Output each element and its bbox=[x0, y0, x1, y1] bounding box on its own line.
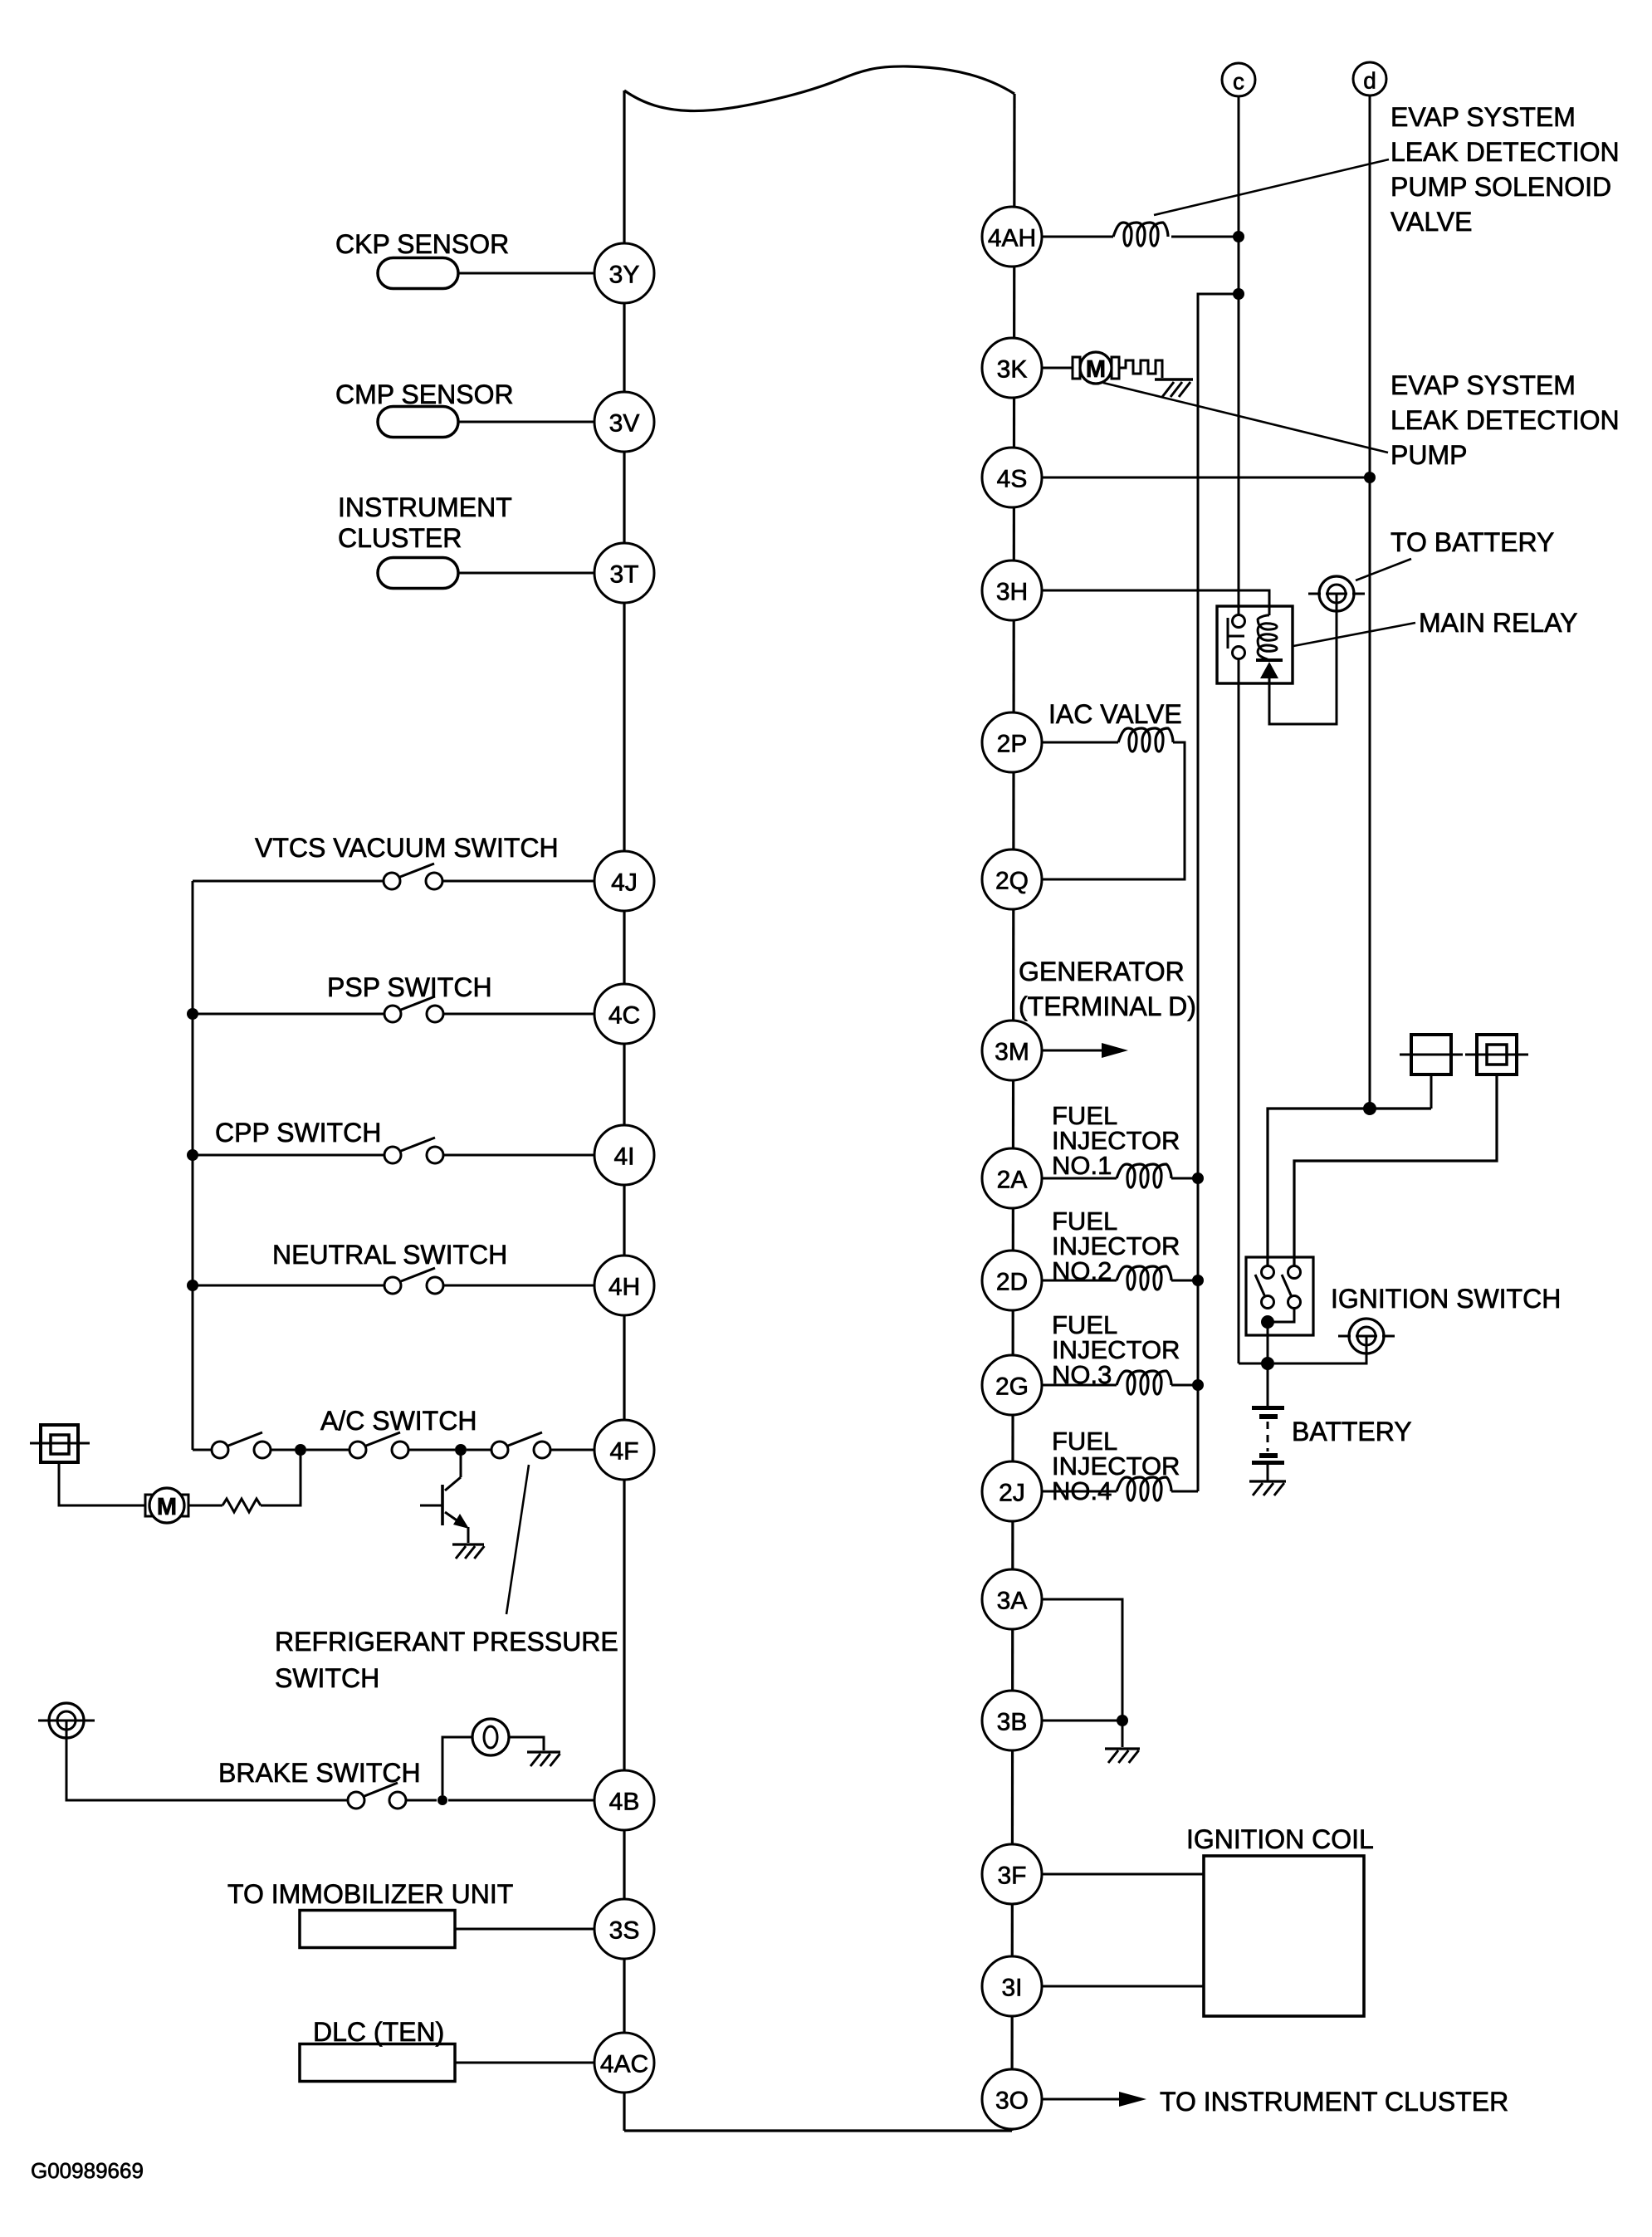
wire solenoid coil to c line bbox=[1171, 236, 1239, 238]
wire neutral switch row right bbox=[443, 1285, 594, 1287]
ignition switch contacts bbox=[1255, 1266, 1301, 1309]
inductor fuel injector no.3 coil bbox=[1117, 1371, 1171, 1394]
node 3M (ECM terminal) bbox=[982, 1021, 1042, 1080]
switch refrigerant pressure switch bbox=[491, 1432, 550, 1458]
leader line EVAP pump bbox=[1103, 383, 1388, 453]
diode D1 (in relay) bbox=[1256, 660, 1283, 678]
svg-text:NO.2: NO.2 bbox=[1052, 1256, 1112, 1285]
svg-text:2J: 2J bbox=[999, 1480, 1025, 1507]
node 4AH (ECM terminal) bbox=[982, 207, 1042, 267]
junction injector no.1 / feed bus bbox=[1192, 1172, 1204, 1184]
node 3A (ECM terminal) bbox=[982, 1569, 1042, 1629]
svg-text:4H: 4H bbox=[609, 1274, 640, 1301]
leader line refrigerant pressure switch bbox=[506, 1465, 529, 1614]
node 3F (ECM terminal) bbox=[982, 1844, 1042, 1904]
junction left branch / CPP row bbox=[187, 1149, 198, 1161]
inductor L2 main relay coil bbox=[1258, 615, 1277, 660]
node 4J (ECM terminal) bbox=[594, 851, 654, 911]
inductor fuel injector no.1 coil bbox=[1117, 1164, 1171, 1187]
svg-text:3K: 3K bbox=[997, 356, 1028, 384]
svg-text:3T: 3T bbox=[609, 561, 638, 589]
svg-text:PUMP SOLENOID: PUMP SOLENOID bbox=[1391, 172, 1611, 202]
junction injector no.2 / feed bus bbox=[1192, 1275, 1204, 1286]
switch brake switch bbox=[348, 1783, 406, 1809]
wire injector no.4 to feed bus bbox=[1171, 1491, 1198, 1493]
svg-text:4C: 4C bbox=[609, 1002, 640, 1030]
wire A/C row segment 1 bbox=[193, 1449, 212, 1451]
svg-text:LEAK DETECTION: LEAK DETECTION bbox=[1391, 405, 1620, 435]
svg-text:CPP SWITCH: CPP SWITCH bbox=[215, 1118, 381, 1148]
wire A/C row segment 3 bbox=[306, 1449, 349, 1451]
wire harness break curve (top) bbox=[624, 66, 1014, 111]
wire ground stub bbox=[1122, 1721, 1124, 1747]
node 3I (ECM terminal) bbox=[982, 1956, 1042, 2016]
wire DLC lead bbox=[455, 2062, 594, 2064]
leader line main relay bbox=[1293, 623, 1415, 646]
svg-text:M: M bbox=[1086, 356, 1106, 383]
connector (square) blower circuit bbox=[30, 1425, 90, 1462]
node 3Y (ECM terminal) bbox=[594, 243, 654, 303]
lamp (brake light) bbox=[472, 1719, 509, 1755]
connector instrument cluster bbox=[378, 558, 458, 589]
svg-text:MAIN RELAY: MAIN RELAY bbox=[1419, 608, 1577, 638]
node 2P (ECM terminal) bbox=[982, 712, 1042, 772]
wire injector no.3 to feed bus bbox=[1171, 1384, 1198, 1387]
wire A/C row segment 6 bbox=[550, 1449, 594, 1451]
svg-text:3H: 3H bbox=[996, 579, 1028, 606]
node 3O (ECM terminal) bbox=[982, 2069, 1042, 2129]
arrow 3O to instrument cluster bbox=[1042, 2092, 1146, 2107]
svg-text:REFRIGERANT PRESSURE: REFRIGERANT PRESSURE bbox=[275, 1627, 618, 1657]
wire blower connector drop bbox=[59, 1462, 145, 1505]
svg-text:IGNITION SWITCH: IGNITION SWITCH bbox=[1331, 1284, 1561, 1314]
svg-text:3Y: 3Y bbox=[609, 262, 640, 289]
wire left switch branch (vertical) bbox=[192, 881, 194, 1450]
node 3H (ECM terminal) bbox=[982, 560, 1042, 620]
connector (round) stoplight circuit bbox=[38, 1703, 95, 1738]
battery BAT1 bbox=[1252, 1406, 1284, 1481]
connector (square) fuse block A bbox=[1400, 1035, 1463, 1074]
wire c feed line (lower) bbox=[1238, 658, 1240, 1363]
wire VTCS switch row right bbox=[442, 880, 594, 883]
svg-text:EVAP SYSTEM: EVAP SYSTEM bbox=[1391, 102, 1576, 132]
node 4AC (ECM terminal) bbox=[594, 2033, 654, 2093]
svg-text:2Q: 2Q bbox=[995, 868, 1029, 895]
wire right ECM bus (vertical) bbox=[1012, 94, 1014, 2131]
wire c line to ignition switch junction bbox=[1239, 1363, 1268, 1365]
junction battery node bbox=[1261, 1357, 1274, 1370]
svg-text:GENERATOR: GENERATOR bbox=[1019, 957, 1185, 986]
block IGNITION COIL bbox=[1204, 1856, 1364, 2016]
transistor Q1 (A/C cut) bbox=[420, 1477, 469, 1543]
ground (ECM 3A/3B) bbox=[1105, 1749, 1140, 1763]
svg-text:NO.1: NO.1 bbox=[1052, 1151, 1112, 1180]
wire 3A to ground branch bbox=[1042, 1599, 1122, 1721]
ground (transistor emitter) bbox=[452, 1544, 484, 1559]
wire 3K to pump motor bbox=[1042, 367, 1076, 370]
ground (battery) bbox=[1249, 1481, 1286, 1495]
wire 3I to ignition coil bbox=[1042, 1985, 1204, 1988]
svg-text:CLUSTER: CLUSTER bbox=[338, 523, 462, 553]
node c (to other sheet) bbox=[1222, 63, 1255, 96]
switch VTCS vacuum switch bbox=[384, 864, 442, 889]
node 2G (ECM terminal) bbox=[982, 1355, 1042, 1415]
inductor fuel injector no.2 coil bbox=[1117, 1266, 1171, 1290]
wire 3B to ground branch bbox=[1042, 1720, 1122, 1722]
svg-text:NEUTRAL SWITCH: NEUTRAL SWITCH bbox=[272, 1240, 507, 1270]
wire immobilizer lead bbox=[455, 1928, 594, 1931]
svg-text:A/C SWITCH: A/C SWITCH bbox=[320, 1406, 477, 1436]
svg-text:IAC VALVE: IAC VALVE bbox=[1048, 699, 1182, 729]
svg-text:G00989669: G00989669 bbox=[31, 2158, 144, 2183]
svg-text:PUMP: PUMP bbox=[1391, 440, 1467, 470]
junction ignition switch output bbox=[1261, 1315, 1274, 1329]
junction left branch / PSP row bbox=[187, 1008, 198, 1020]
wire 2P to IAC coil bbox=[1042, 742, 1118, 744]
inductor fuel injector no.4 coil bbox=[1117, 1477, 1171, 1500]
wire c feed line (upper) bbox=[1238, 96, 1240, 615]
node 4B (ECM terminal) bbox=[594, 1770, 654, 1830]
inductor L1 EVAP leak detection pump solenoid valve bbox=[1113, 223, 1168, 246]
wire lamp branch bbox=[442, 1737, 472, 1795]
arrow 3M to generator terminal D bbox=[1042, 1043, 1128, 1058]
wire PSP switch row right bbox=[443, 1013, 594, 1016]
resistor R2 (pump, meander) bbox=[1119, 360, 1162, 378]
svg-text:2P: 2P bbox=[997, 731, 1028, 758]
connector (round) TO BATTERY bbox=[1308, 576, 1365, 611]
wire motor to resistor bbox=[188, 1505, 222, 1507]
node 4F (ECM terminal) bbox=[594, 1420, 654, 1480]
ground (brake lamp) bbox=[527, 1752, 560, 1766]
wire ignition connector to battery node bbox=[1274, 1353, 1366, 1363]
svg-text:BATTERY: BATTERY bbox=[1292, 1417, 1412, 1446]
wire CKP sensor lead bbox=[458, 272, 594, 275]
leader line to battery connector bbox=[1356, 559, 1411, 580]
motor M2 EVAP leak detection pump bbox=[1073, 352, 1119, 384]
wire brake row segment bbox=[406, 1799, 437, 1802]
svg-text:4S: 4S bbox=[997, 466, 1028, 493]
node 4S (ECM terminal) bbox=[982, 448, 1042, 507]
node 2J (ECM terminal) bbox=[982, 1461, 1042, 1521]
block TO IMMOBILIZER UNIT bbox=[300, 1911, 455, 1948]
svg-text:VTCS VACUUM SWITCH: VTCS VACUUM SWITCH bbox=[255, 833, 559, 863]
connector (round) ignition switch bbox=[1338, 1319, 1395, 1353]
wire CMP sensor lead bbox=[458, 421, 594, 423]
wire transistor collector drop bbox=[460, 1450, 462, 1477]
switch (middle, A/C request) bbox=[349, 1432, 408, 1458]
relay contact (on c line) bbox=[1228, 615, 1245, 659]
wire ignition switch internal link bbox=[1268, 1308, 1294, 1322]
svg-text:EVAP SYSTEM: EVAP SYSTEM bbox=[1391, 370, 1576, 400]
junction left branch / neutral row bbox=[187, 1280, 198, 1291]
leader line EVAP solenoid valve bbox=[1154, 159, 1389, 215]
svg-text:2A: 2A bbox=[997, 1167, 1028, 1194]
node d (to other sheet) bbox=[1353, 62, 1386, 95]
switch CPP switch bbox=[384, 1138, 443, 1163]
wire fuse B drop to ignition switch bbox=[1294, 1074, 1497, 1265]
junction A/C row / blower motor branch bbox=[295, 1444, 306, 1456]
wire 2D to injector coil bbox=[1042, 1280, 1117, 1282]
svg-text:CKP SENSOR: CKP SENSOR bbox=[335, 229, 509, 259]
svg-text:3I: 3I bbox=[1001, 1975, 1022, 2002]
wire A/C row segment 2 bbox=[271, 1449, 295, 1451]
svg-text:3V: 3V bbox=[609, 410, 640, 438]
wire ignition switch to battery node bbox=[1267, 1322, 1269, 1363]
wire instrument cluster lead bbox=[458, 572, 594, 575]
svg-text:d: d bbox=[1363, 68, 1376, 94]
wire 2G to injector coil bbox=[1042, 1384, 1117, 1387]
connector CKP sensor bbox=[378, 258, 458, 289]
wire PSP switch row left bbox=[193, 1013, 384, 1016]
junction A/C row / transistor branch bbox=[455, 1444, 467, 1456]
svg-text:4I: 4I bbox=[613, 1143, 634, 1171]
svg-text:3F: 3F bbox=[997, 1863, 1026, 1890]
svg-text:3O: 3O bbox=[995, 2088, 1029, 2115]
node 4I (ECM terminal) bbox=[594, 1125, 654, 1185]
resistor R1 blower resistor bbox=[222, 1499, 261, 1512]
switch S1 IGNITION SWITCH (box) bbox=[1246, 1257, 1313, 1335]
wire injector no.2 to feed bus bbox=[1171, 1280, 1198, 1282]
node 4H (ECM terminal) bbox=[594, 1256, 654, 1315]
svg-text:NO.3: NO.3 bbox=[1052, 1360, 1112, 1389]
wire A/C row segment 4 bbox=[408, 1449, 455, 1451]
svg-text:INSTRUMENT: INSTRUMENT bbox=[338, 492, 512, 522]
wire left ECM bus (vertical) bbox=[623, 91, 625, 2131]
inductor L3 IAC valve bbox=[1118, 728, 1173, 751]
wire d line to ignition switch pole bbox=[1268, 1109, 1431, 1265]
switch neutral switch bbox=[384, 1268, 443, 1294]
wire 3H to main relay coil bbox=[1042, 590, 1269, 615]
wire A/C row segment 5 bbox=[467, 1449, 491, 1451]
junction 3A/3B ground bbox=[1117, 1715, 1128, 1726]
node 3S (ECM terminal) bbox=[594, 1899, 654, 1959]
svg-text:3S: 3S bbox=[609, 1917, 640, 1945]
wire lamp to ground bbox=[509, 1737, 544, 1750]
node 3V (ECM terminal) bbox=[594, 392, 654, 452]
wire 2A to injector coil bbox=[1042, 1177, 1117, 1180]
wire injector feed branch bbox=[1198, 294, 1239, 1491]
svg-text:TO INSTRUMENT CLUSTER: TO INSTRUMENT CLUSTER bbox=[1160, 2087, 1508, 2117]
node 2Q (ECM terminal) bbox=[982, 849, 1042, 909]
svg-text:DLC (TEN): DLC (TEN) bbox=[313, 2017, 444, 2047]
svg-text:NO.4: NO.4 bbox=[1052, 1476, 1112, 1505]
motor M1 blower motor bbox=[145, 1488, 188, 1523]
svg-text:M: M bbox=[157, 1494, 177, 1520]
svg-text:CMP SENSOR: CMP SENSOR bbox=[335, 379, 514, 409]
wire VTCS switch row left bbox=[193, 880, 384, 883]
svg-text:(TERMINAL D): (TERMINAL D) bbox=[1019, 991, 1196, 1021]
wire brake row to 4B bbox=[448, 1799, 594, 1802]
node 3K (ECM terminal) bbox=[982, 338, 1042, 398]
switch PSP switch bbox=[384, 996, 443, 1022]
connector (square) fuse block B bbox=[1465, 1035, 1528, 1074]
svg-text:VALVE: VALVE bbox=[1391, 207, 1472, 237]
svg-text:LEAK DETECTION: LEAK DETECTION bbox=[1391, 137, 1620, 167]
node 3T (ECM terminal) bbox=[594, 543, 654, 603]
junction 4S / d line bbox=[1364, 472, 1376, 483]
svg-text:TO BATTERY: TO BATTERY bbox=[1391, 527, 1554, 557]
svg-text:TO IMMOBILIZER UNIT: TO IMMOBILIZER UNIT bbox=[227, 1879, 513, 1909]
node 4C (ECM terminal) bbox=[594, 984, 654, 1044]
svg-text:3M: 3M bbox=[995, 1039, 1029, 1066]
junction solenoid / c line bbox=[1233, 231, 1244, 242]
wire 4AH to solenoid coil bbox=[1042, 236, 1113, 238]
wire CPP switch row right bbox=[443, 1154, 594, 1157]
wire IAC coil loop to 2Q bbox=[1042, 742, 1185, 879]
wire brake connector drop bbox=[66, 1738, 348, 1800]
svg-text:4F: 4F bbox=[609, 1438, 638, 1466]
wire 2J to injector coil bbox=[1042, 1491, 1117, 1493]
connector CMP sensor bbox=[378, 407, 458, 438]
junction d line / ignition feed bbox=[1363, 1102, 1376, 1115]
svg-text:2G: 2G bbox=[995, 1373, 1029, 1401]
junction injector feed branch / c line bbox=[1233, 288, 1244, 300]
wire d feed line bbox=[1369, 95, 1371, 1109]
wire 4S to d line bbox=[1042, 477, 1370, 479]
junction brake row / lamp branch bbox=[437, 1795, 447, 1805]
svg-text:BRAKE SWITCH: BRAKE SWITCH bbox=[218, 1758, 421, 1788]
wire 3F to ignition coil bbox=[1042, 1873, 1204, 1876]
wire resistor to A/C row bbox=[261, 1450, 301, 1505]
svg-text:PSP SWITCH: PSP SWITCH bbox=[327, 972, 492, 1002]
svg-text:4J: 4J bbox=[611, 869, 638, 897]
junction injector no.3 / feed bus bbox=[1192, 1379, 1204, 1391]
svg-text:SWITCH: SWITCH bbox=[275, 1663, 379, 1693]
block DLC (TEN) bbox=[300, 2044, 455, 2082]
svg-text:c: c bbox=[1233, 69, 1244, 95]
svg-text:2D: 2D bbox=[996, 1269, 1028, 1296]
svg-text:4AC: 4AC bbox=[600, 2051, 648, 2078]
wire injector no.1 to feed bus bbox=[1171, 1177, 1198, 1180]
relay K1 MAIN RELAY (box) bbox=[1217, 606, 1293, 683]
wire bottom bus link bbox=[624, 2129, 1012, 2132]
node 2D (ECM terminal) bbox=[982, 1251, 1042, 1310]
svg-text:4B: 4B bbox=[609, 1789, 640, 1816]
wire fuse A drop bbox=[1430, 1074, 1433, 1109]
svg-text:3B: 3B bbox=[997, 1709, 1028, 1736]
wire relay coil to battery connector bbox=[1269, 612, 1337, 724]
ground (pump) bbox=[1155, 379, 1193, 397]
svg-text:3A: 3A bbox=[997, 1588, 1028, 1615]
wire CPP switch row left bbox=[193, 1154, 384, 1157]
svg-text:IGNITION COIL: IGNITION COIL bbox=[1186, 1824, 1374, 1854]
wire battery node to battery bbox=[1267, 1363, 1269, 1406]
wire neutral switch row left bbox=[193, 1285, 384, 1287]
switch A/C switch bbox=[212, 1432, 271, 1458]
svg-text:4AH: 4AH bbox=[988, 225, 1036, 252]
node 2A (ECM terminal) bbox=[982, 1148, 1042, 1208]
node 3B (ECM terminal) bbox=[982, 1691, 1042, 1750]
